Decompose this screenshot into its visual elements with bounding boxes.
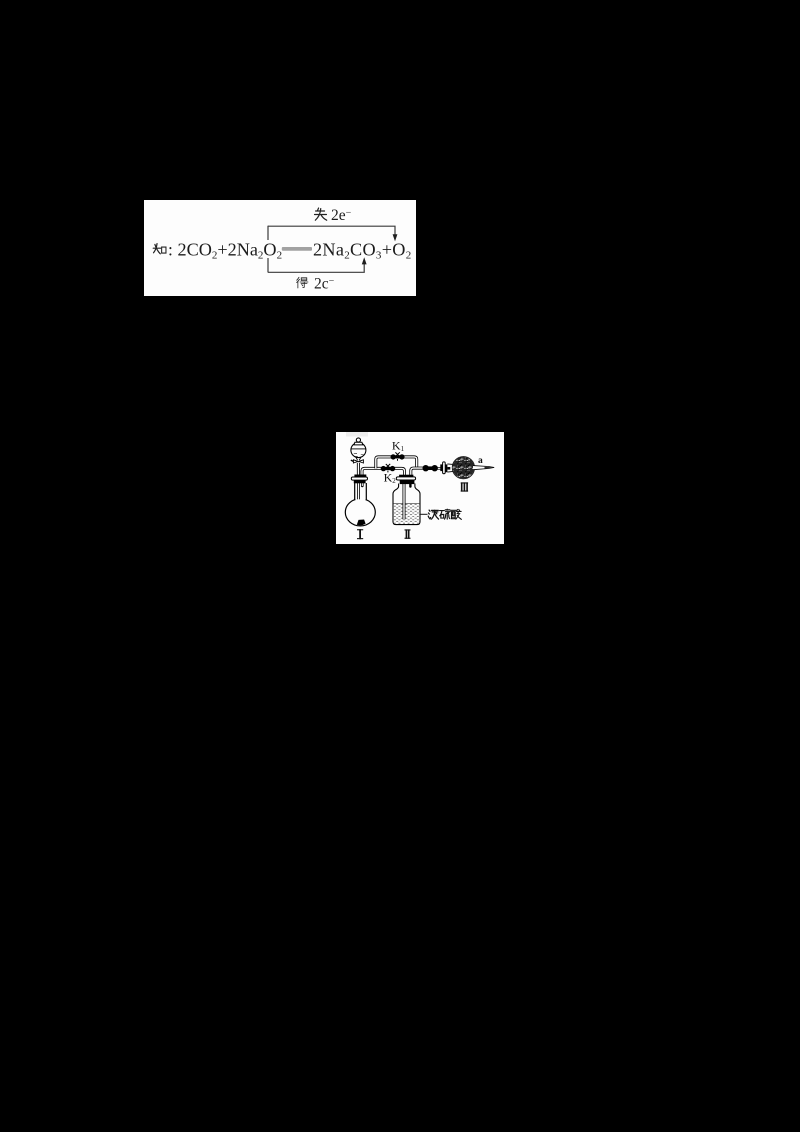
svg-text:2CO2+2Na2O2: 2CO2+2Na2O2 — [178, 239, 283, 261]
wire: top bracket (electron loss path) with down arrow shaft to product O2 — [268, 226, 395, 236]
arrowhead: down arrow onto product O2 — [393, 234, 398, 241]
svg-text:2e−: 2e− — [331, 207, 352, 224]
svg-text:1: 1 — [401, 445, 405, 453]
label II — [405, 529, 411, 538]
apparatus panel — [336, 432, 504, 544]
wire: bottle II outlet to connector — [411, 468, 437, 475]
neck — [355, 482, 365, 500]
label I — [357, 529, 363, 539]
valve K1 — [391, 452, 405, 461]
long inlet tube in bottle II — [403, 476, 406, 519]
short outlet stub — [409, 484, 411, 487]
svg-text:K: K — [392, 439, 401, 453]
hanzi RU label — [153, 244, 166, 254]
funnel collar + knob — [354, 442, 363, 445]
flask I stopper — [354, 475, 366, 478]
wire: flask outlet to bottle II long tube (path through K2) — [362, 468, 405, 475]
funnel stem down to stopper — [357, 463, 360, 475]
pointer line to acid label — [420, 513, 428, 515]
valve K2 — [381, 464, 396, 473]
wire: vertical bracket stub below O2 of Na2O2 — [267, 258, 269, 273]
wire: vertical bracket stub above O2 of Na2O2 — [267, 226, 269, 240]
svg-text:2: 2 — [392, 477, 396, 485]
faint scan smudge top — [346, 432, 368, 437]
equation panel — [144, 200, 416, 296]
funnel taper to stopcock — [356, 457, 361, 460]
equation text: 2CO2+2Na2O2 = 2Na2CO3+O2 — [153, 207, 411, 293]
svg-text::: : — [168, 240, 173, 260]
wire: K1 bypass loop — [376, 457, 417, 469]
label III — [461, 482, 468, 491]
funnel stem inside neck — [357, 483, 360, 499]
solid reagent blob — [357, 520, 366, 526]
bulb — [345, 499, 375, 526]
loss label: shi 2e- — [315, 208, 327, 220]
svg-text:2c−: 2c− — [314, 276, 335, 293]
bottle II stopper — [399, 475, 413, 477]
gas tube stub inside neck — [361, 483, 364, 486]
funnel sphere — [351, 443, 366, 458]
liquid (conc. sulfuric acid) — [394, 504, 420, 524]
inner tube stub — [447, 467, 450, 470]
wire: bottom bracket (electron gain path) with up arrow shaft to CO3 — [268, 262, 364, 272]
wire: connector to bung — [436, 467, 441, 469]
ball neck mouth — [447, 464, 454, 472]
thick equals bar — [282, 247, 312, 251]
svg-text:a: a — [478, 456, 483, 466]
svg-text:2Na2CO3+O2: 2Na2CO3+O2 — [313, 239, 412, 261]
gain label: de 2c- — [297, 277, 308, 288]
label: nong liu suan (concentrated sulfuric acid) — [428, 510, 438, 519]
arrowhead: up arrow onto Na2CO3 — [362, 257, 367, 264]
stopcock (open bowtie) — [353, 460, 363, 463]
exit tube with taper tip — [473, 466, 494, 470]
